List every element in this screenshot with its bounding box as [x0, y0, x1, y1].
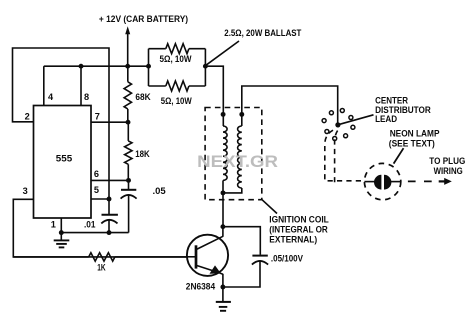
svg-text:LEAD: LEAD [375, 114, 397, 124]
svg-text:NEXT.GR: NEXT.GR [197, 153, 278, 171]
svg-text:5Ω, 10W: 5Ω, 10W [160, 53, 192, 64]
svg-text:+ 12V (CAR BATTERY): + 12V (CAR BATTERY) [99, 14, 188, 25]
svg-text:4: 4 [48, 92, 54, 102]
svg-text:555: 555 [56, 153, 72, 164]
svg-text:NEON LAMP: NEON LAMP [390, 128, 440, 138]
svg-text:8: 8 [84, 92, 89, 102]
svg-text:6: 6 [94, 169, 99, 179]
svg-text:EXTERNAL): EXTERNAL) [269, 233, 317, 244]
svg-text:18K: 18K [135, 148, 150, 159]
svg-text:2N6384: 2N6384 [186, 280, 216, 291]
svg-text:5: 5 [94, 185, 99, 195]
svg-text:2: 2 [25, 112, 30, 122]
svg-text:WIRING: WIRING [434, 166, 463, 176]
svg-text:1K: 1K [97, 262, 106, 272]
svg-text:.05/100V: .05/100V [271, 254, 303, 264]
svg-text:TO PLUG: TO PLUG [429, 156, 465, 166]
svg-text:3: 3 [23, 186, 28, 196]
svg-text:1: 1 [51, 219, 56, 229]
svg-text:2.5Ω, 20W BALLAST: 2.5Ω, 20W BALLAST [224, 27, 301, 38]
svg-text:68K: 68K [135, 91, 150, 102]
svg-text:5Ω, 10W: 5Ω, 10W [161, 95, 192, 106]
svg-text:7: 7 [95, 111, 100, 121]
svg-text:(SEE TEXT): (SEE TEXT) [389, 139, 435, 149]
svg-text:.01: .01 [84, 220, 96, 230]
svg-text:.05: .05 [153, 186, 166, 196]
